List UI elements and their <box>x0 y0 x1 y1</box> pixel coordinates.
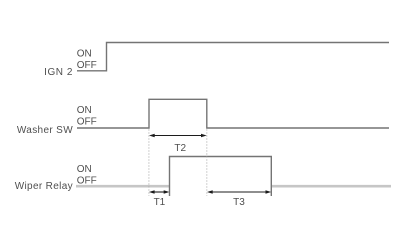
svg-text:Washer SW: Washer SW <box>17 125 73 136</box>
svg-text:OFF: OFF <box>77 60 97 71</box>
svg-text:ON: ON <box>77 105 92 116</box>
IGN 2 waveform <box>77 43 389 71</box>
dotted extension line at washer falling edge <box>206 130 208 197</box>
svg-text:T3: T3 <box>233 197 245 208</box>
T1 dimension arrow <box>149 190 170 193</box>
Washer SW waveform <box>77 99 389 128</box>
svg-text:ON: ON <box>77 164 92 175</box>
Wiper Relay pulse <box>170 157 272 197</box>
svg-text:T2: T2 <box>174 143 186 154</box>
Wiper Relay OFF line left segment <box>76 185 170 188</box>
T2 dimension arrow <box>149 134 207 137</box>
svg-text:OFF: OFF <box>77 117 97 128</box>
svg-text:T1: T1 <box>154 197 166 208</box>
T3 dimension arrow <box>207 190 271 193</box>
svg-text:ON: ON <box>77 48 92 59</box>
svg-text:IGN 2: IGN 2 <box>44 67 73 78</box>
dotted extension line at washer rising edge <box>148 130 150 197</box>
svg-text:Wiper Relay: Wiper Relay <box>15 181 73 192</box>
Wiper Relay OFF line right segment <box>271 185 391 188</box>
